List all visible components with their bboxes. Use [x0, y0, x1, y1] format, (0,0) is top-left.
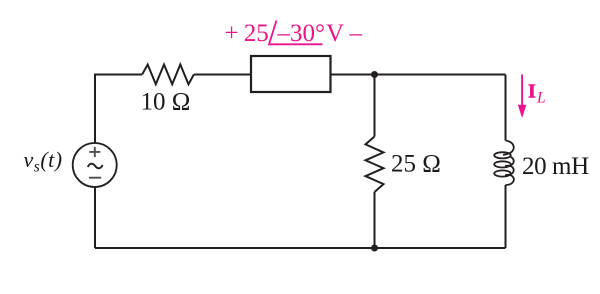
- node junction dot top: [371, 71, 378, 78]
- svg-text:I: I: [528, 81, 536, 103]
- svg-text:vs(t): vs(t): [24, 147, 63, 176]
- wire: top between R1 and box: [194, 74, 251, 76]
- voltage source Vs circle: [73, 143, 117, 187]
- svg-text:–30°: –30°: [277, 20, 326, 47]
- resistor R2 25-ohm vertical zigzag: [366, 137, 384, 193]
- resistor R1 10-ohm zigzag: [142, 65, 194, 85]
- wire: middle rail bottom: [374, 192, 376, 248]
- magenta voltage label: + 25 angle -30 deg V -: [225, 20, 363, 47]
- wire: left rail bottom: [94, 186, 96, 248]
- source sine tilde: [88, 164, 103, 169]
- label IL: [528, 81, 546, 107]
- label 25 ohm: [391, 151, 441, 178]
- svg-text:25: 25: [244, 20, 269, 47]
- svg-text:25 Ω: 25 Ω: [391, 151, 441, 178]
- wire: bottom rail: [95, 247, 506, 249]
- current arrow IL: [518, 74, 527, 118]
- wire: middle rail top: [374, 75, 376, 137]
- label vs(t): [24, 147, 63, 176]
- box element (unknown impedance): [251, 56, 331, 92]
- svg-text:20 mH: 20 mH: [522, 153, 589, 180]
- svg-text:10 Ω: 10 Ω: [141, 89, 191, 116]
- svg-text:+: +: [225, 20, 239, 47]
- wire: right rail top: [505, 75, 507, 141]
- source minus sign: [89, 177, 101, 179]
- label 10 ohm: [141, 89, 191, 116]
- svg-text:L: L: [536, 90, 546, 107]
- node junction dot bottom: [371, 245, 378, 252]
- label 20 mH: [522, 153, 589, 180]
- svg-text:–: –: [349, 20, 363, 47]
- wire: right rail bottom: [505, 185, 507, 248]
- wire: top from box to right corner: [331, 74, 506, 76]
- wire: left rail top (source top to top wire, then right to R1): [95, 75, 142, 145]
- svg-text:V: V: [326, 20, 344, 47]
- inductor L1 coil: [494, 141, 514, 186]
- source plus sign: [89, 147, 100, 157]
